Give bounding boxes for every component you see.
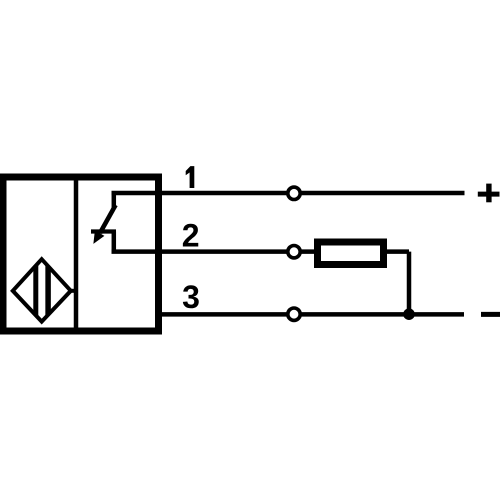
svg-text:3: 3 (182, 279, 200, 315)
wire 2 (switch common to load resistor) (112, 249, 316, 254)
wire (vertical drop from resistor to wire 3) (407, 252, 412, 315)
sensor body (3, 177, 159, 331)
connector circle on wire 3 (288, 308, 300, 320)
switch: vertical lead from wire 1 (112, 191, 117, 209)
switch: movable arm (100, 205, 116, 233)
wire 3 (sensor to - terminal) (156, 312, 464, 317)
proximity sensor symbol: diamond (13, 259, 71, 321)
svg-text:2: 2 (182, 218, 200, 254)
connector circle on wire 1 (288, 187, 300, 199)
junction dot on wire 3 (403, 308, 415, 320)
switch: vertical lead to wire 2 (112, 232, 117, 254)
label 1 (186, 166, 195, 188)
connector circle on wire 2 (288, 246, 300, 258)
switch: arm arrowhead (94, 231, 104, 243)
wire (diamond right vertex to divider) (70, 289, 78, 293)
switch: fixed contact stub (91, 229, 116, 233)
plus terminal symbol (478, 184, 500, 203)
sensor body divider (74, 176, 79, 332)
proximity sensor symbol: right vertical bar (45, 258, 51, 323)
resistor (load) (318, 242, 384, 265)
minus terminal symbol (481, 312, 500, 317)
wire (resistor right lead to vertical drop) (386, 249, 409, 254)
wire 1 (switch output to + terminal) (112, 191, 465, 196)
